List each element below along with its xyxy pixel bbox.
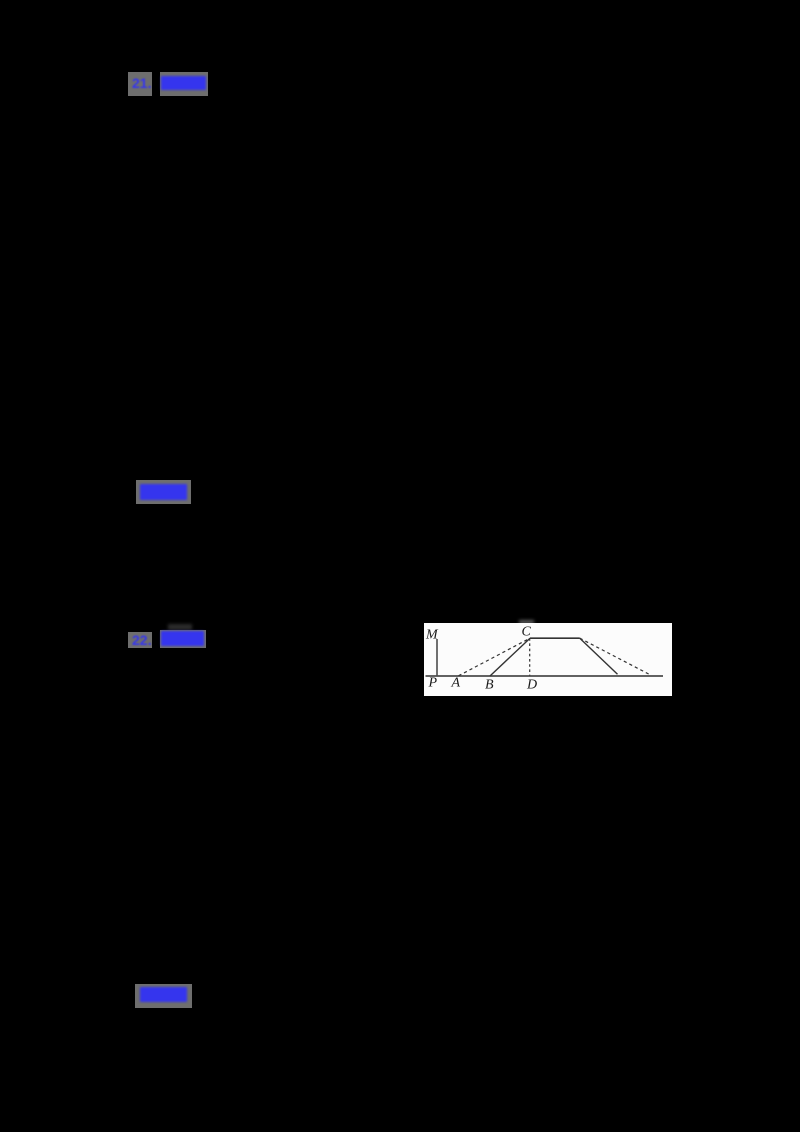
line 22: gray highlight box behind "22.": [128, 632, 152, 648]
svg-text:A: A: [451, 676, 461, 691]
solid top edge: [530, 637, 580, 639]
svg-text:D: D: [526, 678, 537, 693]
ghost artifact above C label: [519, 620, 534, 624]
svg-text:C: C: [522, 625, 532, 640]
line 21: blue text "21.": [132, 75, 151, 91]
svg-text:P: P: [428, 676, 438, 691]
standalone answer tag 1: gray highlight box: [136, 480, 191, 504]
standalone answer tag 2: gray highlight box: [135, 984, 192, 1008]
line 22: blue text "22.": [132, 632, 151, 648]
geometry figure image: [424, 623, 672, 696]
line 21: blue CJK run blob: [161, 76, 206, 90]
svg-text:B: B: [485, 678, 494, 693]
standalone answer tag 2: blue CJK run blob: [140, 987, 187, 1002]
line 22: gray highlight box behind score run: [160, 630, 206, 648]
dashed line A to C: [459, 638, 531, 676]
line 22: faint dark smudge above: [168, 624, 192, 630]
line 22: blue CJK run blob: [161, 631, 204, 646]
solid right slope: [580, 638, 618, 674]
dashed line top-right corner to ground: [580, 638, 649, 674]
line 21: gray highlight box behind "21.": [128, 72, 152, 96]
baseline: [426, 675, 664, 677]
dashed vertical C to D: [529, 638, 531, 676]
svg-text:M: M: [425, 628, 439, 643]
line 21: gray highlight box behind score run: [160, 72, 208, 96]
standalone answer tag 1: blue CJK run blob: [140, 484, 187, 500]
solid left slope B to C: [490, 638, 530, 676]
vertical PM segment: [436, 639, 438, 676]
